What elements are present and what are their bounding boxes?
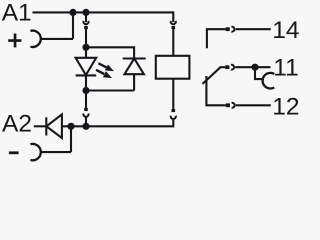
plug connector pin CN4 (coil bottom) xyxy=(172,79,174,109)
plug connector pin CN6 (row 11) xyxy=(225,65,229,69)
svg-text:12: 12 xyxy=(272,93,299,120)
wire 11 clamp branch xyxy=(255,67,264,79)
plug connector socket CN3 (coil top) xyxy=(171,21,176,24)
LED light emission arrows xyxy=(96,63,107,74)
plug connector socket CN4 xyxy=(171,116,176,119)
wire A2 to diode xyxy=(34,125,46,127)
plug connector pin CN5 (row 14) xyxy=(226,27,230,31)
node junction dot J4 (bottom rail) xyxy=(82,87,89,94)
plug connector socket CN2 xyxy=(83,114,88,117)
contact NO fixed contact stub (to 14) xyxy=(207,29,226,48)
plug connector pin CN3 xyxy=(172,26,176,29)
plug connector socket CN7 xyxy=(232,103,235,108)
contact NC fixed contact stub (to 12) xyxy=(206,76,225,105)
wire + clamp to riser xyxy=(41,38,73,40)
plug connector socket CN5 xyxy=(231,27,234,32)
wire riser + to A1 rail xyxy=(72,12,74,39)
node junction dot J1 (plus riser to A1 rail) xyxy=(69,9,76,16)
terminal clamp (11) xyxy=(263,73,275,89)
plug connector socket CN1 (below J2) xyxy=(85,12,87,22)
plug connector pin CN1 xyxy=(84,26,88,29)
wire - clamp to riser xyxy=(41,151,71,153)
terminal clamp (-) xyxy=(30,144,40,160)
terminal clamp (+) xyxy=(30,31,40,47)
relay coil K1 xyxy=(156,56,190,79)
plug connector pin CN7 (row 12) xyxy=(226,103,230,107)
wire to terminal 11 xyxy=(235,66,270,68)
freewheeling diode D2 (pointing up) xyxy=(123,57,146,59)
node junction dot J6 (coil return to A2 rail) xyxy=(82,123,89,130)
protection diode D3 (pointing left) xyxy=(45,117,47,135)
wire to terminal 14 xyxy=(236,28,271,30)
node junction dot J2 (coil branch to A1 rail) xyxy=(82,9,89,16)
wire A1 rail xyxy=(33,11,174,13)
wire top rail of LED/diode network xyxy=(86,47,134,58)
svg-text:11: 11 xyxy=(273,55,298,82)
plug connector socket CN6 xyxy=(231,65,234,70)
contact moving blade (common 11) xyxy=(203,67,221,84)
node junction dot J3 (top rail) xyxy=(82,44,89,51)
node junction dot J5 (minus riser to A2 rail) xyxy=(67,123,74,130)
polarity label + xyxy=(8,34,21,48)
wire bottom rail of LED/diode network xyxy=(86,89,134,91)
wire to terminal 12 xyxy=(236,104,271,106)
svg-text:14: 14 xyxy=(272,17,299,44)
wire A1 rail corner down to coil connector xyxy=(172,11,174,22)
LED D1 (indicator, pointing down) xyxy=(85,47,87,58)
wire blade to connector xyxy=(220,66,226,68)
svg-text:A1: A1 xyxy=(2,0,32,27)
polarity label - xyxy=(9,151,19,154)
plug connector pin CN2 (below J4) xyxy=(85,91,87,108)
svg-text:A2: A2 xyxy=(2,110,32,137)
node junction dot J7 (clamp branch of 11) xyxy=(251,64,258,71)
wire riser - to A2 rail xyxy=(70,126,72,152)
